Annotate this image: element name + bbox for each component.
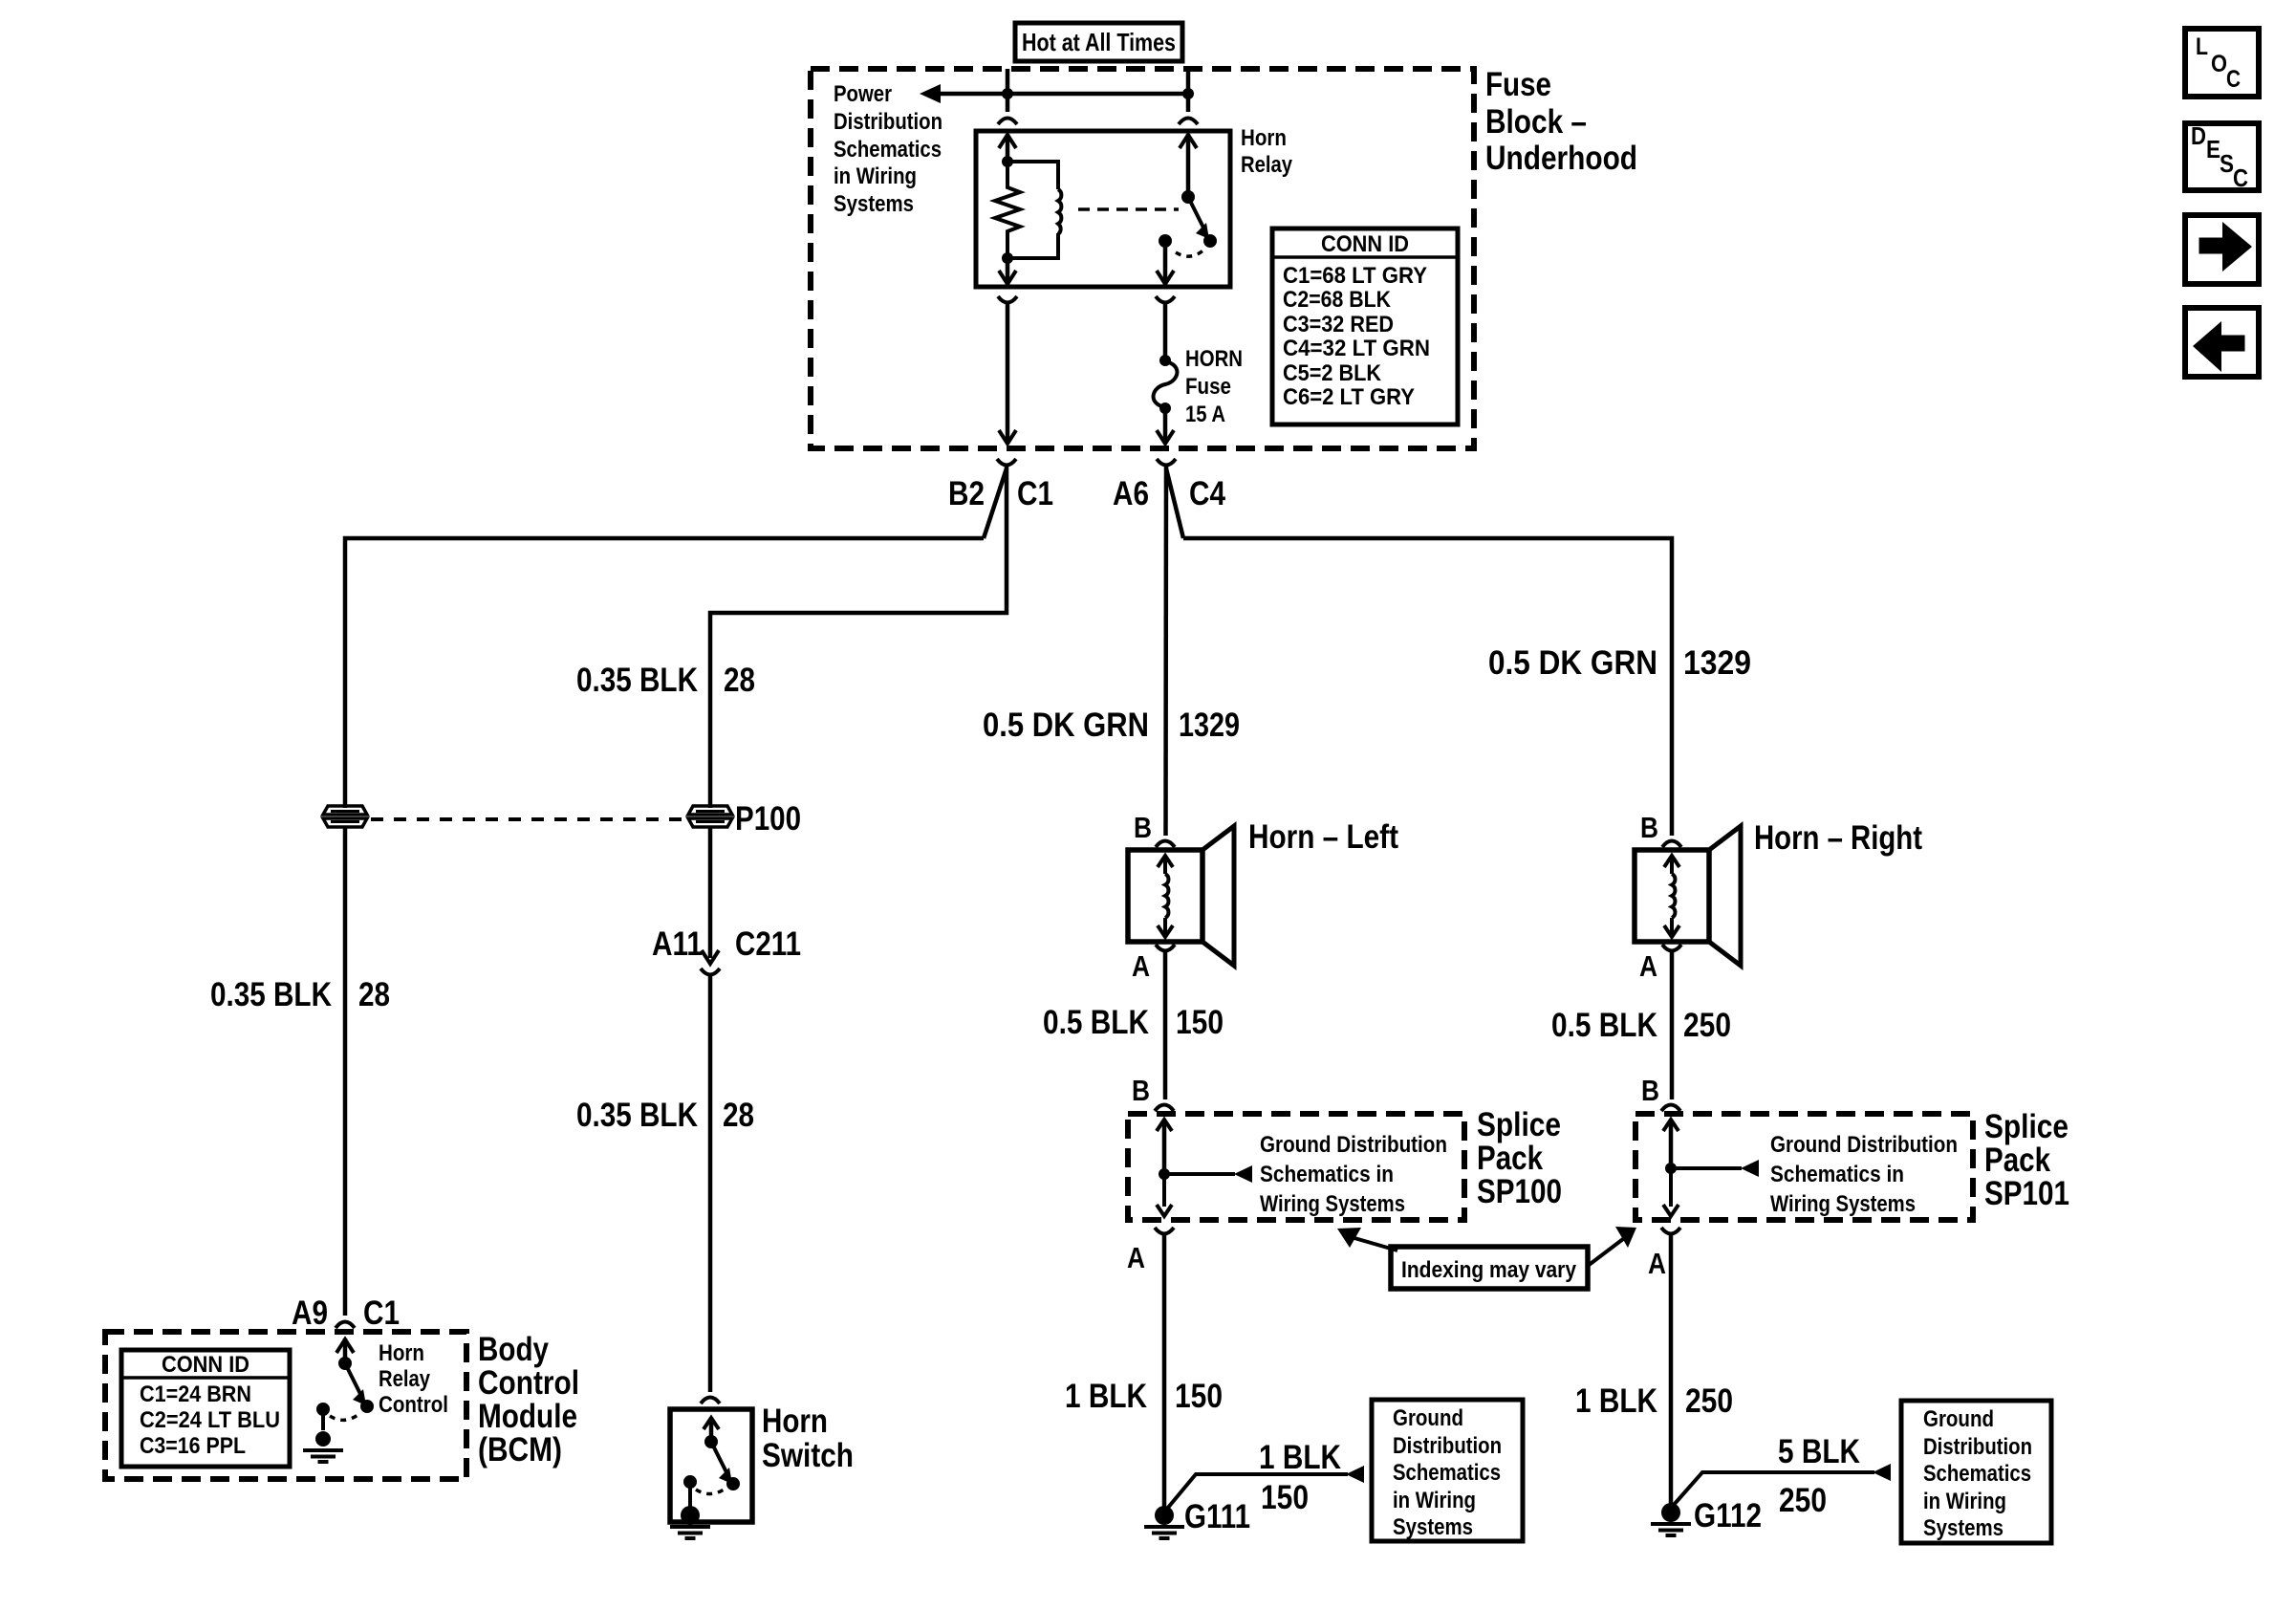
BCM switch travel dashed arc — [330, 1413, 360, 1420]
horn right coil arrow up — [1670, 858, 1674, 874]
connector into SP101 (pin B) — [1661, 1105, 1680, 1112]
connector from SP101 (pin A) — [1661, 1228, 1680, 1234]
horn switch travel dashed arc — [696, 1488, 726, 1494]
svg-text:Schematics: Schematics — [1393, 1460, 1501, 1486]
svg-text:L: L — [2196, 33, 2208, 60]
svg-text:0.35 BLK: 0.35 BLK — [210, 976, 332, 1013]
svg-text:1329: 1329 — [1683, 644, 1751, 682]
wire: horizontal run to BCM then drop — [345, 538, 984, 808]
svg-text:0.35 BLK: 0.35 BLK — [576, 1097, 698, 1134]
icon: next arrow button — [2185, 215, 2259, 284]
BCM driver ground contact — [316, 1403, 330, 1416]
connector C4 pin A6 (fuse block underhood) — [1157, 459, 1176, 466]
wire: P100 to horn switch connector — [708, 828, 713, 958]
junction: HORN fuse top — [1159, 355, 1171, 366]
svg-text:A: A — [1648, 1247, 1666, 1280]
svg-text:Horn – Right: Horn – Right — [1754, 819, 1922, 857]
wire: vertical below B2 connector to horn switch drop — [710, 467, 1007, 808]
relay switch output contact — [1159, 234, 1172, 248]
svg-text:Fuse: Fuse — [1485, 66, 1551, 103]
note box: Indexing may vary — [1391, 1247, 1588, 1289]
svg-text:Wiring Systems: Wiring Systems — [1260, 1191, 1405, 1217]
svg-text:Horn: Horn — [379, 1340, 424, 1366]
svg-text:Underhood: Underhood — [1485, 140, 1637, 177]
svg-text:Indexing may vary: Indexing may vary — [1401, 1257, 1577, 1283]
connector into relay (coil side) — [998, 119, 1017, 125]
svg-text:C6=2 LT GRY: C6=2 LT GRY — [1283, 384, 1415, 410]
connector from relay (B2 side) — [998, 296, 1017, 303]
splice pack SP100 dashed outline — [1128, 1114, 1464, 1220]
svg-text:Relay: Relay — [1241, 152, 1293, 178]
horn switch blade — [711, 1442, 726, 1472]
svg-text:C: C — [2233, 163, 2248, 192]
svg-text:Control: Control — [379, 1392, 448, 1418]
inline connector C211 male arrow — [702, 950, 719, 964]
svg-text:S: S — [2220, 149, 2234, 178]
svg-text:Systems: Systems — [834, 191, 914, 217]
svg-text:in Wiring: in Wiring — [834, 163, 917, 189]
svg-text:Systems: Systems — [1393, 1514, 1473, 1540]
svg-text:Systems: Systems — [1923, 1515, 2004, 1541]
icon: previous arrow button — [2185, 308, 2259, 377]
horn relay outline — [976, 131, 1230, 287]
connector from relay (fuse side) — [1156, 296, 1175, 303]
svg-text:B: B — [1641, 1074, 1659, 1107]
svg-text:Distribution: Distribution — [834, 109, 942, 135]
connector from SP100 (pin A) — [1155, 1228, 1174, 1234]
svg-text:G111: G111 — [1184, 1498, 1250, 1535]
svg-text:Ground Distribution: Ground Distribution — [1770, 1132, 1958, 1158]
svg-text:Ground: Ground — [1393, 1405, 1463, 1431]
horn left body — [1128, 850, 1202, 942]
ground distribution reference box (right) — [1901, 1401, 2051, 1543]
svg-text:A11: A11 — [652, 925, 703, 963]
svg-text:A6: A6 — [1113, 475, 1149, 512]
svg-text:28: 28 — [723, 1097, 754, 1134]
wire: horn right to splice pack SP101 — [1670, 952, 1675, 1099]
wire: relay output to HORN fuse — [1163, 304, 1168, 357]
svg-text:Switch: Switch — [762, 1437, 854, 1474]
svg-text:C4=32 LT GRN: C4=32 LT GRN — [1283, 336, 1430, 361]
svg-text:Splice: Splice — [1984, 1108, 2069, 1145]
horn right coil winding — [1672, 874, 1675, 918]
G111 reference arrowhead — [1346, 1466, 1364, 1483]
svg-text:Splice: Splice — [1477, 1106, 1561, 1143]
svg-text:Fuse: Fuse — [1185, 374, 1231, 400]
svg-text:15 A: 15 A — [1185, 402, 1225, 427]
BCM driver switch pivot — [338, 1357, 352, 1370]
horn right coil arrow down — [1670, 918, 1674, 935]
wire: horn switch contact to ground — [688, 1482, 692, 1509]
SP101 feed arrow — [1669, 1120, 1674, 1168]
wire: horn left to splice pack SP100 — [1163, 952, 1168, 1099]
junction on hot bus at horn relay coil feed — [1002, 88, 1013, 99]
svg-text:0.35 BLK: 0.35 BLK — [576, 662, 698, 699]
svg-text:Hot at All Times: Hot at All Times — [1022, 28, 1176, 56]
connector C1 pin A9 into BCM — [336, 1322, 355, 1329]
svg-text:SP100: SP100 — [1477, 1173, 1562, 1210]
svg-text:D: D — [2191, 121, 2206, 150]
inline connector (BCM branch pass-through) — [323, 806, 367, 815]
relay coil winding — [1058, 189, 1061, 234]
horn left coil arrow up — [1163, 858, 1167, 874]
svg-text:Relay: Relay — [379, 1366, 431, 1392]
svg-text:Control: Control — [478, 1364, 579, 1402]
svg-text:Horn: Horn — [1241, 125, 1287, 151]
horn left speaker flare — [1202, 826, 1234, 966]
inline connector P100 — [688, 806, 732, 815]
wire: relay output to connector C1 pin B2 — [1006, 304, 1010, 440]
svg-text:E: E — [2206, 135, 2220, 163]
wire: slant from C1 to BCM branch — [984, 468, 1007, 538]
wire: battery feed to relay coil — [1006, 69, 1010, 112]
wire: BCM branch below grommet — [343, 828, 348, 1316]
ground distribution reference box (left) — [1372, 1400, 1523, 1541]
svg-text:Distribution: Distribution — [1923, 1434, 2032, 1460]
svg-text:A: A — [1639, 949, 1657, 983]
wire: slant from C4 to horn right branch — [1166, 468, 1183, 538]
svg-text:B2: B2 — [948, 475, 985, 512]
wire: SP100 to ground G111 — [1162, 1235, 1167, 1508]
svg-text:A9: A9 — [292, 1295, 328, 1332]
SP101 reference stub with arrowhead — [1671, 1166, 1742, 1170]
svg-text:Schematics in: Schematics in — [1770, 1162, 1904, 1187]
wire: HORN fuse to connector C4 pin A6 — [1163, 408, 1168, 440]
icon: LOC button — [2185, 29, 2259, 97]
svg-text:C2=68 BLK: C2=68 BLK — [1283, 287, 1392, 313]
svg-text:1 BLK: 1 BLK — [1575, 1382, 1657, 1420]
svg-text:250: 250 — [1779, 1482, 1827, 1519]
svg-text:Schematics: Schematics — [1923, 1461, 2031, 1487]
svg-text:C3=16 PPL: C3=16 PPL — [140, 1433, 246, 1459]
svg-text:Block –: Block – — [1485, 103, 1587, 141]
wire: SP101 to ground G112 — [1669, 1235, 1674, 1505]
svg-text:C3=32 RED: C3=32 RED — [1283, 312, 1394, 337]
G112 reference arrowhead — [1873, 1464, 1891, 1481]
relay actuation dashed link — [1078, 207, 1179, 211]
svg-text:C: C — [2226, 66, 2241, 93]
connector from Horn - Right (pin A) — [1662, 945, 1681, 951]
wire: relay switched output — [1163, 241, 1168, 286]
svg-text:C1=24 BRN: C1=24 BRN — [140, 1382, 251, 1407]
relay switch pivot — [1181, 190, 1195, 204]
svg-text:150: 150 — [1261, 1479, 1309, 1516]
svg-text:A: A — [1127, 1241, 1145, 1274]
svg-text:(BCM): (BCM) — [478, 1431, 562, 1469]
resistor inside horn relay — [995, 162, 1020, 258]
fuse block CONN ID table — [1272, 228, 1458, 424]
svg-text:CONN ID: CONN ID — [162, 1352, 249, 1378]
wire: G112 branch to reference — [1674, 1472, 1874, 1505]
svg-text:G112: G112 — [1694, 1497, 1762, 1534]
svg-text:Pack: Pack — [1477, 1140, 1543, 1177]
svg-text:0.5 DK GRN: 0.5 DK GRN — [1488, 644, 1657, 682]
body control module dashed outline — [105, 1332, 466, 1479]
wire: hot feed bus to power distribution (arrow left) — [935, 92, 1188, 97]
svg-text:Horn – Left: Horn – Left — [1248, 818, 1398, 856]
svg-text:Ground: Ground — [1923, 1406, 1994, 1432]
HORN fuse element — [1154, 361, 1178, 407]
svg-text:C1=68 LT GRY: C1=68 LT GRY — [1283, 263, 1427, 289]
connector into horn switch — [701, 1398, 720, 1404]
relay pin arrow up (coil feed) — [1006, 134, 1010, 162]
svg-text:in Wiring: in Wiring — [1393, 1488, 1476, 1513]
junction: SP100 splice — [1159, 1168, 1170, 1180]
wire: battery feed to relay switch — [1186, 69, 1191, 112]
svg-text:28: 28 — [358, 976, 390, 1013]
svg-text:C1: C1 — [1017, 475, 1053, 512]
horn switch ground contact — [683, 1475, 697, 1489]
fuse block - underhood dashed boundary — [811, 69, 1474, 448]
wire: coil branch bottom — [1007, 233, 1058, 258]
node: Hot at All Times feed box — [1015, 23, 1182, 61]
svg-text:0.5 DK GRN: 0.5 DK GRN — [983, 707, 1149, 744]
svg-text:Ground Distribution: Ground Distribution — [1260, 1132, 1447, 1158]
horn left coil winding — [1165, 874, 1168, 918]
BCM CONN ID table — [121, 1350, 290, 1467]
ground G111 — [1155, 1506, 1174, 1525]
svg-text:C1: C1 — [363, 1295, 400, 1332]
ground inside BCM — [315, 1431, 331, 1447]
horn right speaker flare — [1709, 826, 1741, 966]
connector into Horn - Right (pin B) — [1662, 841, 1681, 848]
wire: horizontal run to horn right then drop — [1183, 538, 1672, 836]
svg-text:B: B — [1134, 811, 1152, 844]
svg-text:C211: C211 — [735, 925, 801, 963]
svg-text:Schematics in: Schematics in — [1260, 1162, 1394, 1187]
junction: SP101 splice — [1665, 1163, 1677, 1174]
svg-text:CONN ID: CONN ID — [1321, 231, 1409, 257]
svg-text:0.5 BLK: 0.5 BLK — [1043, 1004, 1149, 1041]
svg-text:in Wiring: in Wiring — [1923, 1489, 2006, 1514]
svg-text:28: 28 — [724, 662, 755, 699]
wire: coil branch top — [1007, 162, 1058, 189]
horn switch feed arrow — [709, 1419, 714, 1442]
SP100 output arrow — [1162, 1174, 1166, 1207]
wire: relay switch common — [1186, 134, 1191, 197]
svg-text:Horn: Horn — [762, 1403, 828, 1440]
connector into SP100 (pin B) — [1155, 1105, 1174, 1112]
svg-text:O: O — [2211, 51, 2227, 77]
svg-text:Power: Power — [834, 81, 892, 107]
dashed pairing line between grommets — [371, 817, 684, 821]
inline connector C211 female — [701, 968, 720, 975]
junction on hot bus at horn relay switch feed — [1182, 88, 1194, 99]
relay contact travel dashed arc — [1176, 249, 1205, 256]
svg-text:Module: Module — [478, 1398, 577, 1435]
icon: DESC button — [2185, 123, 2259, 190]
svg-text:SP101: SP101 — [1984, 1175, 2069, 1212]
svg-text:1329: 1329 — [1179, 707, 1240, 744]
svg-text:150: 150 — [1175, 1378, 1223, 1415]
svg-text:HORN: HORN — [1185, 346, 1243, 372]
svg-text:C5=2 BLK: C5=2 BLK — [1283, 360, 1382, 386]
svg-text:Pack: Pack — [1984, 1142, 2050, 1179]
svg-text:150: 150 — [1176, 1004, 1224, 1041]
ground at horn switch — [681, 1506, 700, 1525]
horn right body — [1635, 850, 1709, 942]
svg-text:Distribution: Distribution — [1393, 1433, 1502, 1459]
relay switch blade — [1188, 197, 1203, 228]
connector C1 pin B2 (fuse block underhood) — [997, 459, 1016, 466]
svg-text:1 BLK: 1 BLK — [1259, 1439, 1341, 1476]
svg-text:Wiring Systems: Wiring Systems — [1770, 1191, 1916, 1217]
indexing note arrow to SP100 — [1354, 1238, 1397, 1251]
SP100 reference stub with arrowhead — [1164, 1172, 1235, 1176]
junction: relay coil top — [1002, 156, 1013, 167]
SP101 output arrow — [1669, 1168, 1673, 1207]
horn switch pivot — [704, 1435, 718, 1448]
BCM driver switch blade — [345, 1363, 360, 1394]
wire: G111 branch to reference — [1167, 1474, 1348, 1509]
svg-text:0.5 BLK: 0.5 BLK — [1551, 1007, 1657, 1044]
BCM horn relay control driver arrow — [343, 1338, 348, 1363]
junction: HORN fuse bottom — [1159, 402, 1171, 414]
ground G112 — [1661, 1503, 1680, 1522]
svg-text:Schematics: Schematics — [834, 137, 942, 163]
svg-text:5 BLK: 5 BLK — [1778, 1433, 1860, 1470]
wire: BCM driver contact to ground — [321, 1409, 325, 1430]
wire: vertical below A6 connector to horn left — [1163, 467, 1168, 836]
splice pack SP101 dashed outline — [1635, 1114, 1973, 1220]
svg-text:B: B — [1132, 1074, 1150, 1107]
horn switch outline — [670, 1409, 752, 1522]
relay pin arrow down (coil ground) — [1006, 258, 1010, 286]
connector from Horn - Left (pin A) — [1156, 945, 1175, 951]
svg-text:A: A — [1132, 949, 1150, 983]
connector into Horn - Left (pin B) — [1156, 841, 1175, 848]
svg-text:C2=24 LT BLU: C2=24 LT BLU — [140, 1407, 280, 1433]
SP100 feed arrow — [1162, 1120, 1167, 1174]
svg-text:C4: C4 — [1189, 475, 1225, 512]
svg-text:250: 250 — [1685, 1382, 1733, 1420]
horn left coil arrow down — [1163, 918, 1167, 935]
junction: relay coil bottom — [1002, 252, 1013, 264]
svg-text:Body: Body — [478, 1331, 549, 1368]
svg-text:1 BLK: 1 BLK — [1065, 1378, 1147, 1415]
svg-text:P100: P100 — [735, 800, 801, 838]
wire: C211 to horn switch — [708, 976, 713, 1392]
svg-text:B: B — [1640, 811, 1658, 844]
indexing note arrow to SP101 — [1588, 1239, 1623, 1266]
connector into relay (switch side) — [1179, 119, 1198, 125]
svg-text:250: 250 — [1683, 1007, 1731, 1044]
